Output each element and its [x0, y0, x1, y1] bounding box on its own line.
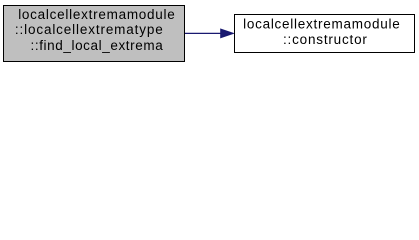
node box: localcellextremamodule::localcellextrematype::find_local_extrema (current node, grey)	[4, 6, 185, 62]
wire: call edge from find_local_extrema to constructor	[185, 32, 221, 34]
arrowhead	[221, 29, 234, 38]
svg-text:localcellextremamodule: localcellextremamodule	[243, 16, 400, 31]
svg-text:localcellextremamodule: localcellextremamodule	[18, 7, 175, 22]
svg-text:::find_local_extrema: ::find_local_extrema	[31, 38, 164, 53]
svg-text:::constructor: ::constructor	[283, 32, 368, 47]
node box: localcellextremamodule::constructor (callee, white)	[235, 15, 415, 53]
svg-text:::localcellextrematype: ::localcellextrematype	[15, 22, 164, 37]
